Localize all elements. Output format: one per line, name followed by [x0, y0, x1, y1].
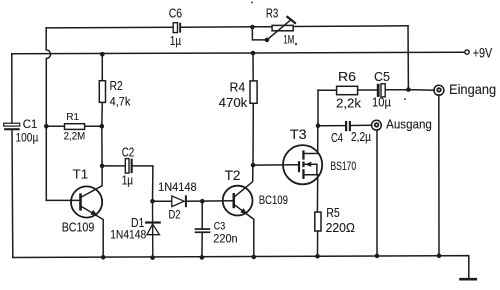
svg-text:D2: D2 — [169, 210, 181, 222]
svg-text:T1: T1 — [73, 167, 89, 182]
svg-text:C4: C4 — [331, 131, 343, 145]
svg-text:R3: R3 — [266, 7, 278, 21]
svg-text:2,2M: 2,2M — [64, 131, 86, 143]
svg-text:1M: 1M — [283, 35, 294, 47]
svg-text:1µ: 1µ — [122, 172, 134, 187]
svg-text:10µ: 10µ — [372, 96, 391, 110]
svg-text:R5: R5 — [326, 205, 340, 220]
svg-text:T2: T2 — [225, 168, 241, 183]
svg-text:220Ω: 220Ω — [326, 220, 356, 235]
svg-text:C5: C5 — [374, 69, 390, 84]
svg-text:D1: D1 — [131, 216, 144, 230]
svg-text:BC109: BC109 — [62, 219, 95, 234]
svg-text:1µ: 1µ — [170, 34, 181, 48]
svg-text:Eingang: Eingang — [449, 82, 496, 97]
svg-text:Ausgang: Ausgang — [386, 118, 432, 132]
svg-text:C2: C2 — [122, 145, 135, 160]
svg-text:BS170: BS170 — [330, 159, 356, 173]
svg-text:100µ: 100µ — [16, 131, 39, 145]
svg-text:R1: R1 — [66, 111, 79, 123]
svg-text:R2: R2 — [110, 78, 123, 93]
svg-text:1N4148: 1N4148 — [110, 230, 146, 242]
svg-text:R6: R6 — [338, 69, 356, 84]
svg-text:220n: 220n — [213, 233, 237, 245]
svg-text:C1: C1 — [23, 119, 38, 131]
svg-text:T3: T3 — [290, 127, 307, 143]
svg-text:+9V: +9V — [473, 44, 493, 60]
svg-text:C3: C3 — [214, 220, 225, 232]
svg-text:2,2µ: 2,2µ — [351, 130, 371, 144]
svg-text:4,7k: 4,7k — [110, 94, 132, 108]
svg-text:2,2k: 2,2k — [336, 97, 362, 111]
svg-text:BC109: BC109 — [259, 193, 288, 207]
svg-text:R4: R4 — [230, 80, 246, 95]
svg-text:1N4148: 1N4148 — [158, 180, 197, 194]
svg-text:470k: 470k — [219, 96, 248, 110]
svg-text:C6: C6 — [169, 7, 182, 21]
